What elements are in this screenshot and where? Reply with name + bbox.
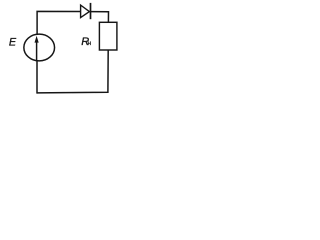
diode VD triangle	[81, 5, 90, 18]
wire: source top up then right along top to diode anode	[37, 11, 81, 34]
source E circle	[24, 34, 55, 61]
diode cathode bar	[90, 3, 92, 19]
wire: diode cathode right then down to resistor top	[91, 12, 109, 23]
svg-text:E: E	[9, 37, 17, 49]
svg-text:н: н	[88, 40, 92, 47]
source arrow shaft	[36, 42, 38, 61]
wire: bottom-left corner up to source bottom	[36, 61, 38, 94]
resistor Rн rectangle	[99, 22, 117, 50]
wire: resistor bottom down then left along bottom	[37, 50, 108, 93]
source arrow head	[35, 36, 39, 43]
